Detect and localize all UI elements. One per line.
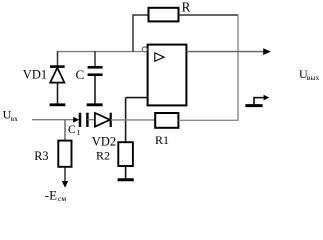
svg-text:1: 1	[77, 128, 81, 137]
wire: R3 stub from input line	[64, 120, 66, 141]
label -Ecm	[45, 188, 67, 204]
resistor R1	[155, 113, 178, 128]
svg-text:R3: R3	[34, 149, 48, 163]
svg-text:C: C	[68, 124, 76, 136]
diode VD1	[50, 67, 65, 83]
svg-text:-E: -E	[45, 188, 57, 203]
wire: C top stub	[94, 51, 96, 67]
wire: input line	[32, 119, 74, 121]
svg-text:см: см	[58, 194, 66, 203]
resistor R3	[58, 141, 71, 167]
capacitor C	[88, 67, 103, 74]
wire: R3 to -Ecm arrow	[64, 167, 66, 182]
resistor R2	[118, 142, 133, 166]
wire: R1 right to feedback vertical	[179, 119, 239, 121]
wire: feedback right horizontal	[179, 14, 239, 16]
label Uout	[299, 67, 319, 82]
svg-text:C: C	[76, 67, 85, 82]
op-amp U1	[148, 45, 187, 106]
svg-text:вых: вых	[307, 73, 320, 82]
wire: C1 to VD2	[87, 119, 95, 121]
svg-text:R2: R2	[96, 148, 110, 162]
svg-text:R1: R1	[155, 133, 169, 147]
label C1	[68, 124, 81, 137]
wire: feedback right vertical down to R1 net	[237, 14, 239, 120]
svg-text:R: R	[182, 0, 191, 15]
arrowhead to -Ecm	[62, 181, 68, 188]
capacitor C1	[80, 113, 87, 127]
wire: R2 to ground	[125, 166, 127, 179]
wire: op-amp output	[187, 51, 265, 53]
output arrowhead	[263, 48, 271, 55]
svg-text:VD2: VD2	[92, 135, 116, 149]
diode VD2	[95, 113, 111, 127]
svg-text:вх: вх	[11, 114, 19, 123]
wire: non-inverting input / down to R2	[126, 98, 148, 143]
label Uin	[3, 107, 19, 122]
ground (under R2)	[118, 178, 134, 181]
wire: VD2 cathode to R1	[111, 119, 155, 121]
resistor R	[149, 8, 179, 22]
ground (under C)	[87, 103, 103, 106]
wire: top net from VD1 cathode to op-amp inverting input	[57, 51, 142, 53]
wire: VD1 anode to ground	[57, 83, 59, 104]
input arrowhead into C1	[73, 117, 79, 123]
strobe/key symbol	[245, 95, 269, 106]
wire: VD1 top stub	[57, 51, 59, 67]
wire: C bottom to ground	[94, 76, 96, 104]
op-amp inverting input bubble	[142, 47, 147, 52]
svg-text:VD1: VD1	[23, 68, 47, 82]
wire: feedback left (down from R to inverting input net)	[133, 15, 148, 52]
ground (under VD1)	[50, 103, 66, 106]
